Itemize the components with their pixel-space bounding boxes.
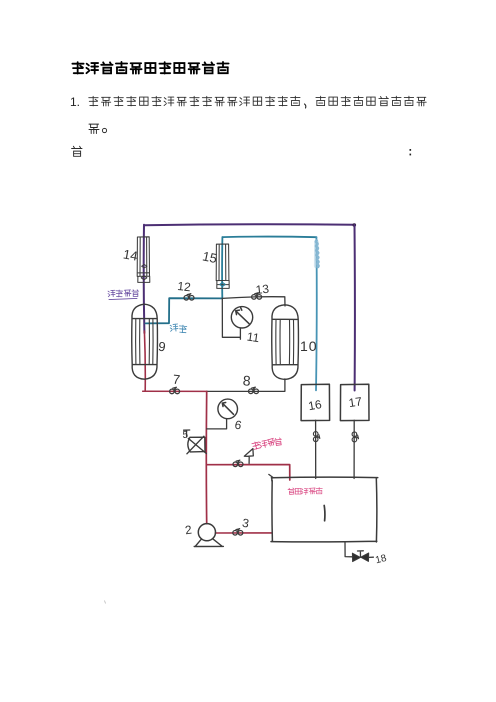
handwriting pink 牛奶溶液槽 in tank <box>288 487 322 494</box>
label 4 flag and stem <box>244 449 253 464</box>
svg-text:13: 13 <box>255 282 270 297</box>
valve below box 16 <box>313 432 319 442</box>
faint stray mark bottom left <box>105 601 106 604</box>
svg-text:3: 3 <box>241 516 250 531</box>
svg-text:15: 15 <box>201 248 218 266</box>
paragraph line 2 用。 <box>89 124 107 133</box>
wire box 17 outlet to tank <box>353 420 355 478</box>
handwriting blue 浓液 <box>170 324 187 333</box>
svg-text:17: 17 <box>348 394 363 410</box>
svg-text:6: 6 <box>233 418 243 433</box>
wire red module 9 bottom feed horizontal <box>143 390 207 392</box>
valve 5 body with X <box>188 437 205 452</box>
box 16 <box>301 384 330 420</box>
wire purple top horizontal <box>144 223 355 226</box>
valve 7 <box>170 387 180 393</box>
module 9 <box>132 304 158 379</box>
svg-text:16: 16 <box>307 397 323 413</box>
handwriting pink 料液循环 by valve 4 <box>252 438 283 450</box>
svg-text:14: 14 <box>122 246 139 263</box>
gauge 6 <box>218 399 238 419</box>
wire purple right vertical to box 17 <box>354 225 356 391</box>
wire gauge 6 branch <box>207 419 227 429</box>
node purple top-right corner blot <box>353 223 357 227</box>
valve 3 <box>233 529 243 535</box>
tank 1 top-left corner tick <box>269 474 273 477</box>
wire box 16 outlet to tank <box>315 420 317 478</box>
wire teal top horizontal <box>222 236 316 239</box>
valve below box 17 <box>352 432 358 442</box>
valve 4 <box>233 460 243 466</box>
wire valve 4 branch red to tank <box>207 465 290 480</box>
rotameter 14 <box>137 237 149 277</box>
title 超滤膜分离实验实验报告 <box>72 62 228 74</box>
wire dark from junction through valve 13 to module 10 top <box>222 297 285 306</box>
module 10 <box>272 305 299 380</box>
svg-text:18: 18 <box>374 553 388 566</box>
drain valve 18 solid <box>352 553 368 562</box>
wire red main feed vertical from pump <box>205 391 207 523</box>
valve 5 stem <box>184 430 190 437</box>
valve 12 <box>184 294 194 300</box>
pump 2 <box>198 524 215 541</box>
wire tank drain <box>345 542 373 558</box>
svg-text:1.: 1. <box>70 95 80 109</box>
colon at right <box>410 149 412 155</box>
svg-text:9: 9 <box>157 339 166 355</box>
wire teal right vertical to box 16 <box>315 237 318 390</box>
svg-text:8: 8 <box>242 372 251 389</box>
svg-text:10: 10 <box>300 338 318 354</box>
svg-text:12: 12 <box>177 279 192 294</box>
svg-text:5: 5 <box>183 430 189 441</box>
svg-text:2: 2 <box>184 523 193 538</box>
wire gauge 11 tee <box>222 298 240 339</box>
wire red continuation inside module 9 down to feed line <box>143 331 146 391</box>
valve 8 <box>249 387 259 393</box>
tank 1 <box>271 477 378 542</box>
wire teal vertical through rotameter 15 <box>221 237 223 298</box>
box 17 <box>340 384 369 420</box>
svg-text:7: 7 <box>172 372 181 388</box>
teal scribble thickening on right vertical <box>316 241 318 267</box>
answer 答 <box>72 146 82 156</box>
valve 13 <box>252 293 262 299</box>
handwriting purple 滤液循环 <box>108 290 139 300</box>
label 1 <box>323 506 326 521</box>
svg-text:11: 11 <box>246 330 261 346</box>
wire teal from module 9 side outlet <box>146 298 223 323</box>
rotameter 15 <box>216 244 229 281</box>
wire purple left vertical through rotameter 14 into module 9 <box>143 225 146 333</box>
gauge 11 <box>231 307 252 328</box>
paragraph line 1 pseudo glyphs <box>89 96 426 108</box>
wire pump outlet red to tank <box>215 532 271 534</box>
wire dark feed horizontal to module 10 bottom <box>207 379 285 392</box>
